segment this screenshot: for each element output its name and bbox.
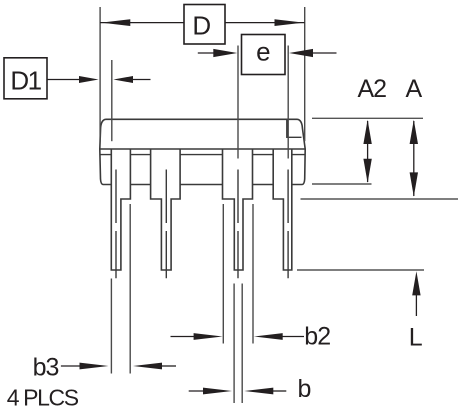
L reference line	[297, 269, 424, 271]
pin 3	[223, 149, 253, 270]
dimension A arrow	[413, 121, 415, 196]
top reference line	[312, 117, 423, 119]
dimension e left arrow	[198, 52, 215, 54]
dimension D1 leader arrow	[47, 79, 81, 81]
svg-text:b2: b2	[304, 323, 330, 351]
pin 4	[273, 149, 292, 270]
package body right edge	[292, 119, 305, 184]
dimension e extension line left	[237, 46, 239, 159]
dimension b3 extension lines	[111, 204, 130, 374]
dimension L arrow	[415, 294, 417, 316]
pin 1	[111, 149, 130, 270]
pin 1 rear lead line	[115, 170, 117, 279]
svg-text:4 PLCS: 4 PLCS	[7, 385, 79, 408]
dimension e extension line right	[287, 46, 289, 159]
dimension e right arrow	[311, 52, 337, 54]
dimension b arrows	[189, 390, 206, 392]
dimension b2 extension lines	[223, 204, 253, 344]
pin 4 rear lead line	[287, 170, 289, 279]
dimension D arrowheads	[101, 19, 130, 26]
dimension D extension line left	[99, 7, 101, 141]
package body left edge	[100, 119, 111, 184]
dimension A2 arrow	[367, 121, 369, 182]
dimension D line	[100, 22, 305, 24]
pin 2	[151, 149, 181, 270]
package mold parting line	[100, 154, 305, 156]
dimension D1 label box	[4, 58, 47, 99]
package body bottom line	[100, 148, 305, 150]
svg-text:A2: A2	[358, 75, 387, 103]
svg-text:A: A	[406, 75, 423, 103]
dimension b3 arrows	[61, 365, 80, 367]
svg-text:b3: b3	[33, 354, 59, 382]
seating plane line	[301, 198, 459, 200]
svg-text:D1: D1	[10, 66, 41, 96]
dimension D1 right arrow	[131, 79, 151, 81]
dimension b2 arrows	[171, 336, 196, 338]
package corner notch	[287, 119, 302, 137]
dimension e label box	[242, 35, 286, 75]
pin 3 rear lead line	[237, 170, 239, 279]
svg-text:e: e	[256, 37, 270, 67]
svg-text:L: L	[409, 324, 423, 352]
svg-text:D: D	[192, 11, 211, 41]
dimension D label box	[184, 5, 225, 45]
dimension D1 extension line	[111, 60, 113, 141]
svg-text:b: b	[298, 375, 312, 403]
dimension D extension line right	[304, 7, 306, 141]
package lower body bottom edges	[130, 184, 273, 186]
package body top edge	[106, 118, 298, 120]
pin 2 rear lead line	[165, 170, 167, 279]
dimension b extension lines	[234, 284, 242, 404]
A2 bottom reference line	[312, 183, 372, 185]
